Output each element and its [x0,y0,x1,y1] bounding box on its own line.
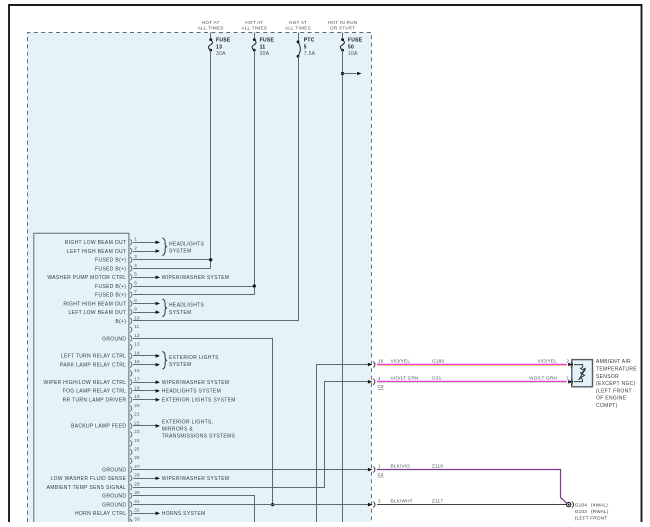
svg-text:G103: G103 [575,509,587,514]
svg-text:(EXCEPT NGC): (EXCEPT NGC) [596,381,636,387]
svg-text:C3: C3 [378,384,384,389]
svg-text:COMPT): COMPT) [596,403,618,409]
svg-text:C4: C4 [378,472,384,477]
svg-text:5: 5 [304,44,307,50]
svg-text:HEADLIGHTS: HEADLIGHTS [169,303,204,309]
svg-text:AMBIENT AIR: AMBIENT AIR [596,359,631,365]
svg-text:HORNS SYSTEM: HORNS SYSTEM [162,511,206,517]
svg-text:FUSE: FUSE [216,37,231,43]
svg-text:17: 17 [134,377,140,382]
svg-text:WIPER/WASHER SYSTEM: WIPER/WASHER SYSTEM [162,275,230,281]
svg-text:OF ENGINE: OF ENGINE [596,396,627,402]
svg-text:RIGHT HIGH BEAM OUT: RIGHT HIGH BEAM OUT [63,301,126,307]
svg-text:GROUND: GROUND [102,336,126,342]
svg-text:VIO/LT GRN: VIO/LT GRN [529,376,557,381]
svg-text:25: 25 [134,447,140,452]
svg-text:FUSED B(+): FUSED B(+) [95,266,126,272]
svg-text:1: 1 [378,464,381,469]
svg-text:RR TURN LAMP DRIVER: RR TURN LAMP DRIVER [63,398,127,404]
svg-text:VIO/YEL: VIO/YEL [391,358,411,363]
svg-text:(RWAL): (RWAL) [591,509,609,514]
svg-text:19: 19 [134,394,140,399]
svg-text:31: 31 [134,499,140,504]
svg-text:HEADLIGHTS SYSTEM: HEADLIGHTS SYSTEM [162,389,221,395]
svg-text:B(+): B(+) [115,319,126,325]
svg-text:Z116: Z116 [432,463,443,468]
svg-text:16: 16 [378,359,384,364]
svg-text:11: 11 [134,324,139,329]
svg-text:MIRRORS &: MIRRORS & [162,427,194,433]
svg-text:WIPER/WASHER SYSTEM: WIPER/WASHER SYSTEM [162,380,230,386]
svg-text:HOT AT: HOT AT [202,20,220,25]
svg-text:(LEFT FRONT: (LEFT FRONT [575,516,608,521]
svg-text:13: 13 [134,342,140,347]
svg-text:11: 11 [260,44,266,50]
svg-text:22: 22 [134,420,140,425]
svg-text:G31: G31 [432,376,442,381]
svg-text:HEADLIGHTS: HEADLIGHTS [169,241,204,247]
svg-text:ALL TIMES: ALL TIMES [198,25,224,30]
svg-text:BLK/WHT: BLK/WHT [391,498,413,503]
svg-text:VIO/YEL: VIO/YEL [537,358,557,363]
svg-text:EXTERIOR LIGHTS SYSTEM: EXTERIOR LIGHTS SYSTEM [162,397,236,403]
svg-text:4: 4 [378,376,381,381]
svg-text:HORN RELAY CTRL: HORN RELAY CTRL [75,511,126,517]
svg-text:WIPER HIGH/LOW RELAY CTRL: WIPER HIGH/LOW RELAY CTRL [43,380,126,386]
svg-text:6: 6 [134,280,137,285]
svg-text:7: 7 [134,289,137,294]
svg-text:2: 2 [134,245,137,250]
svg-text:10: 10 [134,315,140,320]
svg-text:LEFT HIGH BEAM OUT: LEFT HIGH BEAM OUT [67,249,126,255]
svg-text:SYSTEM: SYSTEM [169,362,191,368]
svg-text:WASHER PUMP MOTOR CTRL: WASHER PUMP MOTOR CTRL [47,275,126,281]
svg-text:BLK/VIO: BLK/VIO [391,463,411,468]
svg-text:27: 27 [134,464,140,469]
svg-text:24: 24 [134,438,140,443]
svg-text:26: 26 [134,455,140,460]
svg-text:18: 18 [134,385,140,390]
svg-text:GROUND: GROUND [102,502,126,508]
svg-text:3: 3 [378,499,381,504]
svg-text:14: 14 [134,350,140,355]
svg-text:TRANSMISSIONS SYSTEMS: TRANSMISSIONS SYSTEMS [162,434,236,440]
svg-text:7.5A: 7.5A [304,51,316,57]
svg-text:VIO/LT GRN: VIO/LT GRN [391,376,419,381]
svg-text:HOT AT: HOT AT [289,20,307,25]
svg-text:FUSED B(+): FUSED B(+) [95,258,126,264]
svg-text:Z117: Z117 [432,498,443,503]
svg-text:1: 1 [567,376,570,381]
svg-text:1: 1 [134,237,137,242]
svg-text:30A: 30A [216,51,226,57]
svg-text:(LEFT FRONT: (LEFT FRONT [596,388,632,394]
svg-text:SYSTEM: SYSTEM [169,310,191,316]
svg-text:21: 21 [134,412,140,417]
svg-text:ALL TIMES: ALL TIMES [241,25,267,30]
svg-text:AMBIENT TEMP SENS SIGNAL: AMBIENT TEMP SENS SIGNAL [47,485,127,491]
svg-text:EXTERIOR LIGHTS: EXTERIOR LIGHTS [169,355,219,361]
svg-text:ALL TIMES: ALL TIMES [285,25,311,30]
svg-text:5: 5 [134,272,137,277]
svg-text:4: 4 [134,263,137,268]
svg-text:BACKUP LAMP FEED: BACKUP LAMP FEED [71,424,126,430]
svg-text:LOW WASHER FLUID SENSE: LOW WASHER FLUID SENSE [51,476,127,482]
svg-text:(4WAL): (4WAL) [591,503,608,508]
svg-text:LEFT LOW BEAM OUT: LEFT LOW BEAM OUT [68,310,126,316]
svg-text:WIPER/WASHER SYSTEM: WIPER/WASHER SYSTEM [162,476,230,482]
svg-text:RIGHT LOW BEAM OUT: RIGHT LOW BEAM OUT [65,240,127,246]
svg-text:15: 15 [134,359,140,364]
svg-text:FUSE: FUSE [260,37,275,43]
svg-text:GROUND: GROUND [102,467,126,473]
svg-text:TEMPERATURE: TEMPERATURE [596,367,637,373]
svg-text:FOG LAMP RELAY CTRL: FOG LAMP RELAY CTRL [63,389,127,395]
svg-text:3: 3 [134,254,137,259]
svg-text:G104: G104 [575,503,587,508]
svg-text:PTC: PTC [304,37,315,43]
svg-text:30: 30 [134,490,140,495]
svg-text:OR START: OR START [330,25,355,30]
svg-text:23: 23 [134,429,140,434]
svg-text:32: 32 [134,508,140,513]
svg-text:29: 29 [134,482,140,487]
svg-text:13: 13 [216,44,222,50]
svg-text:12: 12 [134,333,140,338]
svg-text:GROUND: GROUND [102,494,126,500]
svg-text:SENSOR: SENSOR [596,374,619,380]
svg-text:33: 33 [134,516,140,521]
svg-text:10A: 10A [348,51,358,57]
svg-text:PARK LAMP RELAY CTRL: PARK LAMP RELAY CTRL [60,363,126,369]
svg-text:FUSED B(+): FUSED B(+) [95,284,126,290]
svg-text:G180: G180 [432,358,444,363]
svg-text:HOT IN RUN: HOT IN RUN [328,20,358,25]
svg-text:28: 28 [134,473,140,478]
svg-text:2: 2 [567,358,570,363]
svg-text:8: 8 [134,298,137,303]
svg-text:20: 20 [134,403,140,408]
svg-text:EXTERIOR LIGHTS,: EXTERIOR LIGHTS, [162,419,214,425]
svg-text:30A: 30A [260,51,270,57]
svg-text:9: 9 [134,307,137,312]
svg-text:FUSE: FUSE [348,37,363,43]
svg-text:SYSTEM: SYSTEM [169,249,191,255]
svg-text:16: 16 [134,368,140,373]
svg-text:50: 50 [348,44,354,50]
svg-text:FUSED B(+): FUSED B(+) [95,293,126,299]
svg-text:LEFT TURN RELAY CTRL: LEFT TURN RELAY CTRL [61,354,127,360]
svg-text:HOT AT: HOT AT [245,20,263,25]
